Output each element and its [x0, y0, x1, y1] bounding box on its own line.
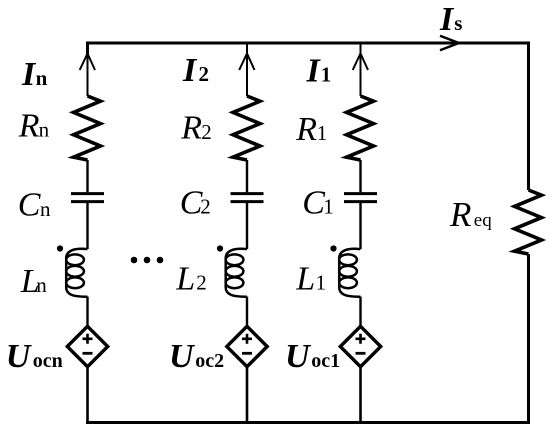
label Uocn: [6, 338, 63, 375]
dependent source Uoc2: [227, 326, 267, 366]
wire source-bottom branch 1: [359, 367, 362, 424]
plus sign Uoc2: [242, 334, 252, 344]
label R1: [295, 111, 327, 148]
svg-text:I: I: [439, 1, 455, 38]
svg-text:n: n: [36, 66, 48, 90]
svg-text:1: 1: [323, 195, 334, 219]
svg-text:I: I: [21, 56, 37, 93]
label Req: [449, 195, 492, 234]
wire L2-source: [246, 297, 248, 328]
resistor R1: [347, 96, 374, 160]
svg-text:U: U: [285, 338, 312, 375]
svg-text:R: R: [449, 195, 471, 234]
svg-text:n: n: [40, 197, 51, 221]
svg-text:2: 2: [200, 194, 211, 218]
svg-text:n: n: [39, 118, 50, 142]
wire Rn-Cn: [86, 160, 88, 192]
wire R2-C2: [246, 160, 248, 192]
label Uoc2: [169, 338, 224, 375]
resistor R2: [233, 96, 260, 160]
label Is: [439, 1, 462, 38]
wire source-bottom branch 2: [246, 367, 249, 424]
inductor L1: [339, 249, 360, 297]
dots ellipsis: [131, 257, 164, 264]
label Rn: [18, 108, 50, 145]
polarity dot L2: [217, 245, 223, 251]
svg-text:2: 2: [196, 270, 207, 294]
dependent source Uoc1: [340, 326, 380, 366]
plus sign Uoc1: [356, 334, 366, 344]
arrow I2 head: [239, 54, 254, 71]
wire right rail lower: [527, 254, 530, 424]
wire Cn-Ln: [86, 203, 88, 249]
label In: [21, 56, 48, 93]
svg-text:eq: eq: [474, 210, 492, 231]
svg-text:R: R: [18, 108, 40, 145]
svg-text:1: 1: [317, 121, 328, 145]
wire R1-C1: [359, 160, 361, 192]
label C1: [302, 185, 334, 222]
label Cn: [18, 186, 51, 223]
svg-text:R: R: [295, 111, 317, 148]
capacitor C2: [231, 194, 264, 202]
resistor Req: [515, 190, 542, 254]
svg-text:s: s: [454, 11, 462, 35]
plus sign Uocn: [83, 334, 93, 344]
wire L1-source: [359, 297, 361, 328]
wire C1-L1: [359, 203, 361, 249]
wire top rail: [88, 43, 529, 56]
svg-text:oc1: oc1: [311, 350, 340, 372]
resistor Rn: [74, 96, 101, 160]
dependent source Uocn: [67, 326, 107, 366]
label L1: [295, 260, 326, 297]
svg-text:1: 1: [316, 270, 327, 294]
minus sign Uoc1: [356, 352, 366, 355]
minus sign Uocn: [83, 352, 93, 355]
label R2: [180, 110, 212, 147]
polarity dot Ln: [57, 245, 63, 251]
label C2: [180, 184, 211, 221]
inductor L2: [226, 249, 247, 297]
wire Ln-source: [86, 297, 88, 328]
label I2: [182, 52, 209, 89]
wire source-bottom branch n: [86, 367, 89, 424]
arrow In head: [80, 54, 95, 71]
label L2: [175, 260, 207, 297]
svg-text:1: 1: [321, 62, 332, 86]
capacitor Cn: [71, 194, 104, 202]
label Ln: [20, 263, 48, 300]
svg-text:C: C: [18, 186, 41, 223]
svg-text:U: U: [169, 338, 196, 375]
wire bottom rail: [86, 421, 530, 424]
label I1: [306, 52, 332, 89]
capacitor C1: [344, 194, 377, 202]
svg-text:L: L: [295, 260, 315, 297]
svg-text:2: 2: [201, 120, 212, 144]
inductor Ln: [66, 249, 87, 297]
polarity dot L1: [330, 245, 336, 251]
wire C2-L2: [246, 203, 248, 249]
svg-text:I: I: [306, 52, 322, 89]
minus sign Uoc2: [242, 352, 252, 355]
svg-text:2: 2: [199, 62, 210, 86]
label Uoc1: [285, 338, 340, 375]
svg-text:I: I: [182, 52, 198, 89]
svg-text:n: n: [36, 273, 47, 297]
svg-text:oc2: oc2: [195, 350, 224, 372]
svg-text:L: L: [175, 260, 195, 297]
svg-text:R: R: [180, 110, 202, 147]
svg-text:U: U: [6, 338, 33, 375]
wire right rail upper: [527, 42, 530, 191]
arrow Is: [440, 36, 459, 51]
arrow I1 head: [353, 54, 368, 71]
wire branch-1 top / I1 arrow shaft: [360, 44, 362, 96]
svg-text:ocn: ocn: [33, 350, 63, 372]
wire branch-2 top / I2 arrow shaft: [246, 44, 248, 96]
svg-text:C: C: [302, 185, 325, 222]
wire branch-n top / In arrow shaft: [87, 44, 89, 96]
